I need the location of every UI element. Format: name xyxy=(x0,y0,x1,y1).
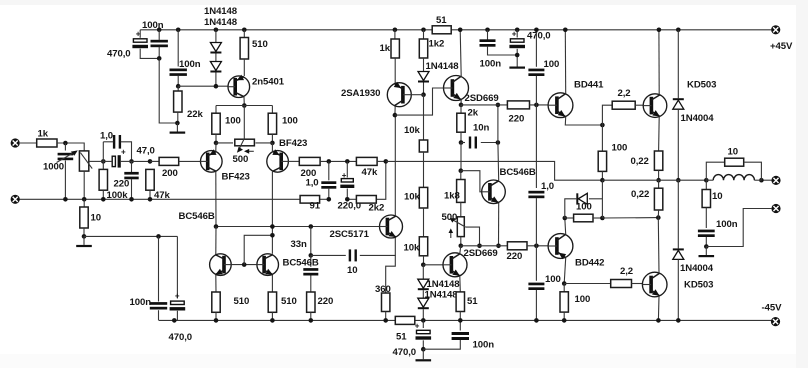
junction 1k top xyxy=(393,28,398,33)
junction: mirror rail right xyxy=(270,224,275,229)
svg-text:0,22: 0,22 xyxy=(631,189,649,200)
junction bootstrap rail xyxy=(534,28,539,33)
wire: down to 1,0 xyxy=(328,161,330,180)
svg-text:BC546B: BC546B xyxy=(500,167,536,178)
junction wiper xyxy=(477,244,482,249)
resistor 360 xyxy=(382,293,390,312)
svg-text:1N4004: 1N4004 xyxy=(681,113,715,124)
wire: down to 220,0 xyxy=(346,161,348,177)
power terminal +45V xyxy=(771,25,780,34)
wire: 0,22 to node xyxy=(657,210,659,218)
diode 1N4148 D2 xyxy=(210,62,221,73)
potentiometer diagonal xyxy=(80,153,92,169)
capacitor 100n (top right) xyxy=(480,39,496,46)
wire: 100 to rail xyxy=(563,312,565,320)
wire: to 100 res b xyxy=(563,284,565,292)
node: emitter L xyxy=(214,141,219,146)
wire: output to 1N4004 b xyxy=(677,180,679,248)
capacitor 33n xyxy=(303,268,318,275)
wire: to 100R xyxy=(271,106,273,114)
junction collector rail xyxy=(458,28,463,33)
svg-text:10: 10 xyxy=(712,191,722,202)
resistor 100 (right) xyxy=(268,113,276,134)
wire: 1,0 left xyxy=(103,141,113,143)
wire: ground node to PSU caps xyxy=(84,235,177,237)
junction diode output xyxy=(676,178,681,183)
wire: collector to rail xyxy=(460,30,461,77)
junction: 220,0 bottom xyxy=(345,197,350,202)
capacitor 100n (top left) xyxy=(151,40,168,47)
resistor 51 emitter xyxy=(456,292,464,312)
wire: to 1k8 xyxy=(460,171,462,180)
wire: caps to ground xyxy=(159,58,177,123)
wire: 0,22 to output xyxy=(658,170,660,180)
svg-text:1N4148: 1N4148 xyxy=(427,279,461,290)
wire: KD503 collector to rail xyxy=(658,30,660,95)
diode 100 bypass (points left) xyxy=(576,193,587,204)
capacitor 1000 input xyxy=(58,153,74,160)
ground: bottom reference xyxy=(416,351,432,362)
svg-text:220: 220 xyxy=(318,296,334,307)
svg-text:2SD669: 2SD669 xyxy=(464,248,498,259)
node: VAS cascade xyxy=(393,113,398,118)
resistor 2,2 top xyxy=(612,101,635,109)
wire: 360 to rail xyxy=(385,312,387,321)
wire: 100n to gnd node xyxy=(488,47,518,55)
wire: 2SC5171 collector up xyxy=(394,115,396,216)
wire: 1N4004 to rail xyxy=(677,259,679,320)
resistor 100 (left) xyxy=(212,113,220,134)
wire: 51 to rail xyxy=(459,312,461,321)
svg-text:100: 100 xyxy=(612,142,628,153)
wire: 100n to node xyxy=(158,47,160,59)
node: 47k branch xyxy=(148,159,153,164)
scan border right xyxy=(796,0,808,368)
capacitor 220 xyxy=(124,172,138,179)
wire: collector up xyxy=(460,246,461,254)
junction 100n top right xyxy=(485,28,490,33)
ground: 22k xyxy=(170,123,186,134)
resistor 100 (lower) xyxy=(560,292,568,312)
wire: to 10n xyxy=(461,142,465,144)
wire: 47,0 to node xyxy=(121,160,132,162)
wire: 47k to node xyxy=(377,160,386,162)
wire: 200 to 47k xyxy=(320,160,356,162)
svg-text:500: 500 xyxy=(233,154,249,165)
potentiometer 500 wiper arrow xyxy=(239,139,244,150)
wire: BF423L collector down xyxy=(215,172,217,227)
svg-text:2SA1930: 2SA1930 xyxy=(341,88,380,99)
resistor 10 (inductor damp) xyxy=(725,158,744,166)
wire: base net to 2n5401 xyxy=(178,85,228,87)
node: 1,0 top xyxy=(327,159,332,164)
wire: pot bottom to ground rail xyxy=(83,171,85,199)
junction: 510 top xyxy=(242,28,247,33)
resistor 220 driver bottom xyxy=(507,242,527,250)
wire: rail to D1 xyxy=(215,30,217,42)
wire: 500 to bottom node xyxy=(460,237,462,246)
svg-text:2,2: 2,2 xyxy=(620,266,633,277)
wire: bypass left xyxy=(706,162,724,180)
wire: rail to 10 xyxy=(83,199,85,207)
resistor 10k #2 xyxy=(419,187,427,208)
wire: tail to 500 wiper xyxy=(243,106,245,139)
wire: 2k to 10n node xyxy=(460,132,462,142)
capacitor 10 xyxy=(349,249,357,261)
wire: diode to base node xyxy=(423,83,425,95)
svg-text:100: 100 xyxy=(575,294,591,305)
wire: -45V bottom rail left section xyxy=(159,319,395,321)
svg-text:100: 100 xyxy=(544,59,560,70)
wire: -45V bottom rail right section xyxy=(415,319,772,321)
junction 1k2 top xyxy=(421,28,426,33)
wire: BF423L emitter up xyxy=(215,143,217,152)
output terminal (speaker -) xyxy=(771,204,780,213)
diode 1N4148 lower a xyxy=(418,279,429,290)
resistor 2k xyxy=(457,113,465,132)
wire: emitter down xyxy=(460,100,462,105)
wire: 22k to ground xyxy=(177,112,179,123)
wire: down past signal xyxy=(460,143,462,171)
resistor 200 right xyxy=(299,157,320,165)
junction KD503 rail xyxy=(657,28,662,33)
svg-text:1k: 1k xyxy=(380,43,391,54)
node: after inductor xyxy=(759,178,764,183)
trimmer 500 diagonal xyxy=(453,220,466,227)
svg-text:KD503: KD503 xyxy=(687,80,716,91)
resistor 1k bias xyxy=(391,39,399,58)
junction 0,22 output xyxy=(656,178,661,183)
inductor L1 xyxy=(713,175,754,181)
wire: ground stub xyxy=(422,349,424,351)
input terminal J1 (signal) xyxy=(11,138,20,147)
wire: 10 cap to 2SC5171 emitter xyxy=(360,238,396,256)
node: after 47,0 xyxy=(129,159,134,164)
wire: node to 500 xyxy=(216,142,233,144)
diode 1N4148 D1 xyxy=(210,43,221,54)
junction: diode string top xyxy=(214,28,219,33)
wire: 2,2 to KD503 base xyxy=(635,104,643,106)
svg-text:100n: 100n xyxy=(480,59,502,70)
wire: 500 to node xyxy=(256,142,273,144)
wire: diode gap xyxy=(422,290,424,298)
resistor 2k2 xyxy=(356,196,376,204)
wire: to 2SD669b base xyxy=(423,264,443,266)
wire: 100 to column xyxy=(593,217,602,219)
svg-text:10: 10 xyxy=(91,213,101,224)
transistor BF423 right (PNP) xyxy=(267,149,289,172)
wire: 100n2 to base node xyxy=(177,76,179,86)
wire: down to 1000 cap xyxy=(64,143,66,151)
wire: emitter to 51 xyxy=(459,276,462,292)
resistor 47k feedback xyxy=(356,157,377,165)
svg-text:KD503: KD503 xyxy=(684,280,713,291)
wire: base to collector tie xyxy=(244,235,272,264)
junction 220 rail xyxy=(129,197,134,202)
wire: multiplier collector up xyxy=(497,143,500,181)
wire: base link xyxy=(411,94,423,96)
junction 510L rail xyxy=(214,318,219,323)
node: 10n left xyxy=(459,140,464,145)
resistor 100k xyxy=(99,169,107,190)
svg-text:+: + xyxy=(512,30,517,39)
resistor 0,22 top xyxy=(654,151,662,170)
svg-text:33n: 33n xyxy=(291,239,307,250)
wire: 1k8 to 500 xyxy=(460,202,462,216)
wire: BC546L emitter down xyxy=(215,275,217,292)
wire: 470,0 to node xyxy=(140,49,159,59)
junction KD503b rail xyxy=(656,318,661,323)
wire: bootstrap mid xyxy=(535,76,537,188)
svg-text:100n: 100n xyxy=(130,297,152,308)
diode 1N4004 upper xyxy=(673,98,684,109)
node: driver top out xyxy=(600,123,605,128)
wire: KD503b emitter to rail xyxy=(657,296,660,321)
wire: rail to 100n tr xyxy=(487,30,489,40)
wire: BF423R collector down xyxy=(271,172,273,254)
svg-text:100k: 100k xyxy=(107,190,129,201)
wire: +45V top rail xyxy=(140,29,771,31)
svg-text:47,0: 47,0 xyxy=(137,146,155,157)
arrow: pot wiper mark xyxy=(57,152,75,162)
wire: 10k1 to 10k2 xyxy=(423,152,425,187)
junction diodes rail xyxy=(421,318,426,323)
svg-text:+: + xyxy=(136,30,141,39)
wire: to 100 xyxy=(601,125,603,151)
wire: to BC546L collector xyxy=(215,227,217,255)
capacitor 1,0 feedback xyxy=(321,181,336,188)
wire: to comp node xyxy=(310,227,312,256)
wire: input to 1k xyxy=(20,142,37,144)
svg-text:10k: 10k xyxy=(404,243,420,254)
wire: bypass right xyxy=(744,162,762,180)
svg-text:47k: 47k xyxy=(154,190,170,201)
wire: bootstrap to rail xyxy=(535,290,537,321)
junction 360 rail xyxy=(383,318,388,323)
diode 1N4148 bias top xyxy=(418,72,429,83)
transistor 2SD669 upper (NPN) xyxy=(444,76,469,101)
wire: to 100L xyxy=(215,106,217,114)
svg-text:10: 10 xyxy=(728,147,738,158)
wire: 10k2 to 10k3 xyxy=(423,208,425,237)
wire: 1N4004 to output xyxy=(677,109,679,180)
wire: diode to column xyxy=(589,198,603,200)
resistor 510 (2n5401 emitter) xyxy=(240,38,248,60)
node: multiplier top xyxy=(459,168,464,173)
svg-text:1N4148: 1N4148 xyxy=(426,61,460,72)
wire: signal to output jog xyxy=(386,161,603,180)
wire: to 0,22 bottom node xyxy=(602,217,658,219)
capacitor 47,0 electrolytic series xyxy=(112,147,126,167)
svg-text:BC546B: BC546B xyxy=(283,257,319,268)
wire: multiplier emitter down xyxy=(498,203,500,246)
svg-text:220: 220 xyxy=(509,114,525,125)
capacitor 470,0 (bottom reference) xyxy=(415,322,431,340)
svg-text:1N4004: 1N4004 xyxy=(680,263,714,274)
junction 1N4004 rail xyxy=(676,318,681,323)
node: input top xyxy=(63,141,68,146)
svg-text:-45V: -45V xyxy=(762,303,783,314)
svg-text:2k: 2k xyxy=(468,108,479,119)
junction 510R rail xyxy=(270,318,275,323)
wire: feedback rail segment xyxy=(320,198,329,200)
wire: node to 22k xyxy=(177,86,179,91)
node: 2SD669b base xyxy=(421,263,426,268)
junction 47k rail xyxy=(148,197,153,202)
svg-text:360: 360 xyxy=(375,284,391,295)
svg-text:1,0: 1,0 xyxy=(306,177,319,188)
wire: rail to 1k2 xyxy=(423,30,425,39)
wire: emitter to 360 xyxy=(386,255,396,293)
wire: 220 to BD441 base xyxy=(530,104,549,106)
capacitor 100n (base filter) xyxy=(170,69,187,76)
wire: mirror bases link xyxy=(232,264,257,266)
wire: vertical at 100k xyxy=(102,142,104,190)
svg-text:+: + xyxy=(342,171,347,180)
wire: 470,0 to gnd xyxy=(516,49,518,58)
node: tail xyxy=(242,103,247,108)
junction: 100n branch xyxy=(156,234,161,239)
resistor 51 rail decouple bottom xyxy=(395,316,415,324)
wire: diodes to rail xyxy=(422,309,424,320)
resistor 100 (parallel diode) xyxy=(574,214,593,222)
svg-text:470,0: 470,0 xyxy=(393,347,417,358)
wire: 1k to pot top xyxy=(57,143,84,151)
wire: to inductor xyxy=(706,179,713,181)
wire: BD442 emitter down xyxy=(564,258,566,284)
wire: 510R to rail xyxy=(271,312,273,320)
potentiometer 500 body xyxy=(235,139,255,146)
svg-text:220: 220 xyxy=(114,179,130,190)
wire: 33n to 220 xyxy=(310,276,312,293)
wire: collector down xyxy=(243,97,245,106)
svg-text:BF423: BF423 xyxy=(222,171,250,182)
wire: rail to 470,0 top-left xyxy=(139,30,141,38)
wire: BC546R emitter down xyxy=(271,275,273,292)
wire: 10k3 to base node xyxy=(423,256,425,265)
resistor 100 (driver load top) xyxy=(598,151,606,171)
svg-text:10: 10 xyxy=(347,265,357,276)
svg-text:22k: 22k xyxy=(187,109,203,120)
svg-text:BF423: BF423 xyxy=(279,138,307,149)
resistor 200 left xyxy=(159,157,179,165)
wire: bottom drive to 220 xyxy=(461,245,508,247)
node: feedback junction xyxy=(384,159,389,164)
wire: rail to 470,0 tr xyxy=(516,30,518,38)
svg-text:470,0: 470,0 xyxy=(169,332,193,343)
wire: D1 to D2 xyxy=(215,54,217,62)
wire: multiplier base feed xyxy=(461,171,482,192)
wire: 220 to rail xyxy=(131,179,133,199)
wire: to 33n xyxy=(310,255,312,266)
wire: to 100 res xyxy=(565,217,574,219)
junction: 100n2 top xyxy=(176,28,181,33)
node: 220,0 top xyxy=(345,159,350,164)
wire: emitter to 220 xyxy=(461,104,507,106)
junction 100k rail xyxy=(101,197,106,202)
svg-text:100: 100 xyxy=(545,274,561,285)
wire: to speaker terminal xyxy=(761,179,771,181)
node: 2SD669 emitter xyxy=(459,103,464,108)
junction: pot bottom xyxy=(82,197,87,202)
svg-text:100n: 100n xyxy=(142,20,164,31)
junction: caps to rail xyxy=(172,318,177,323)
wire: down to 220 xyxy=(131,161,133,172)
wire: output column down xyxy=(601,180,603,218)
wire: 1,0 right xyxy=(121,142,132,162)
wire: input ground rail xyxy=(20,198,301,200)
junction: mirror rail left xyxy=(214,224,219,229)
wire: rail to 100n xyxy=(158,30,160,40)
wire: inductor out xyxy=(754,179,761,181)
wire: KD503 emitter to 0,22 xyxy=(658,117,661,152)
junction emitter bottom xyxy=(496,244,501,249)
transistor KD503 upper (NPN output) xyxy=(643,94,667,118)
wire: to diodes xyxy=(422,265,424,279)
wire: rail to 470,0 gnd xyxy=(422,320,424,328)
resistor 1k input xyxy=(37,139,57,147)
svg-text:2,2: 2,2 xyxy=(618,88,631,99)
resistor 510 (mirror right) xyxy=(268,292,276,312)
trimmer 500 body xyxy=(457,217,464,237)
junction caps gnd xyxy=(515,53,520,58)
transistor 2SD669 lower (NPN) xyxy=(443,253,467,277)
transistor BC546B (Vbe multiplier) xyxy=(482,180,506,204)
junction: diode-connect xyxy=(270,233,275,238)
wire: KD503b collector up xyxy=(657,218,660,274)
output terminal (speaker +) xyxy=(771,176,780,185)
wire: 1k2 to diode xyxy=(423,58,425,71)
resistor 0,22 bottom xyxy=(654,188,662,210)
transistor BD442 (PNP driver) xyxy=(548,234,573,260)
diode 1N4004 lower xyxy=(673,248,684,259)
node: emitter R xyxy=(270,141,275,146)
capacitor 100n rail bypass (bottom left) xyxy=(150,302,167,309)
node: signal ground xyxy=(82,234,87,239)
svg-text:220: 220 xyxy=(507,251,523,262)
svg-text:BC546B: BC546B xyxy=(179,211,215,222)
transistor BC546B right (NPN mirror) xyxy=(257,254,279,276)
resistor 1k8 xyxy=(457,180,465,203)
resistor 22k xyxy=(174,91,182,112)
wire: node to 47k node xyxy=(132,160,151,162)
junction 220 rail xyxy=(309,318,314,323)
node: multiplier bottom xyxy=(459,244,464,249)
wire: rail to 100n2 xyxy=(177,30,179,67)
wire: speaker return xyxy=(706,209,771,247)
wire: 10n to right node xyxy=(481,142,498,144)
svg-text:100: 100 xyxy=(576,202,592,213)
resistor 91 xyxy=(300,196,320,204)
wire: 1000 cap to ground rail xyxy=(64,161,66,200)
junction emitter net xyxy=(496,103,501,108)
junction: cap/ground rail xyxy=(63,197,68,202)
wire: wiper tap xyxy=(466,227,480,246)
wire: pot wiper out xyxy=(89,160,104,162)
wire: to 2,2 bottom xyxy=(564,283,611,285)
wire: comp to 10 cap xyxy=(311,254,346,256)
resistor 2,2 bottom xyxy=(611,280,632,288)
junction bootstrap bottom rail xyxy=(534,318,539,323)
wire: 2k2 to feedback node xyxy=(376,161,386,199)
wire: zobel mid xyxy=(705,208,707,229)
trimmer 500 arrow xyxy=(450,231,452,238)
transistor 2n5401 (PNP current source) xyxy=(228,75,250,98)
wire: down to 100n xyxy=(158,236,160,301)
node: 22k ground xyxy=(175,121,180,126)
wire: feedback rail segment2 xyxy=(347,198,356,200)
wire: 10 to ground node xyxy=(83,228,85,236)
